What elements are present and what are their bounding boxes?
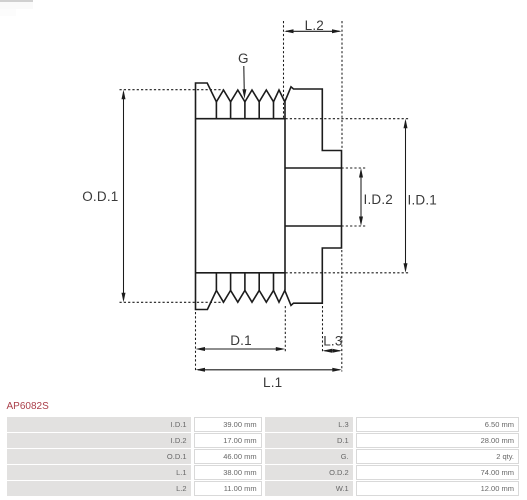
groove stems bottom xyxy=(216,273,273,291)
row 5 xyxy=(7,481,191,496)
pulley outline xyxy=(196,83,342,310)
svg-text:I.D.2: I.D.2 xyxy=(364,192,394,207)
svg-text:O.D.1: O.D.1 xyxy=(82,189,118,204)
row 1 xyxy=(7,417,191,432)
svg-text:D.1: D.1 xyxy=(230,333,252,348)
row 2 xyxy=(7,433,191,448)
dimension O.D.1 xyxy=(120,90,224,303)
svg-text:L.3: L.3 xyxy=(323,334,342,349)
svg-text:G: G xyxy=(238,51,249,66)
svg-text:L.2: L.2 xyxy=(305,18,324,33)
dimension L.1 xyxy=(198,369,340,371)
dimension I.D.1 xyxy=(286,119,411,273)
groove root line top xyxy=(196,118,286,120)
svg-text:L.1: L.1 xyxy=(263,375,282,390)
dimension L.3 xyxy=(323,250,342,372)
dimension I.D.2 xyxy=(342,168,367,226)
bore line I.D.2 bottom xyxy=(285,225,341,227)
top-left screenshot smudge xyxy=(0,0,33,2)
groove stems top xyxy=(216,102,273,119)
row 3 xyxy=(7,449,191,464)
groove root line bottom xyxy=(196,272,286,274)
bore line I.D.2 top xyxy=(285,167,341,169)
row 4 xyxy=(7,465,191,480)
part number AP6082S xyxy=(7,401,49,412)
dimension D.1 xyxy=(196,306,286,372)
spec table xyxy=(0,0,1,1)
dimension L.2 xyxy=(284,21,343,150)
svg-text:I.D.1: I.D.1 xyxy=(408,193,438,208)
body right edge xyxy=(284,102,286,291)
